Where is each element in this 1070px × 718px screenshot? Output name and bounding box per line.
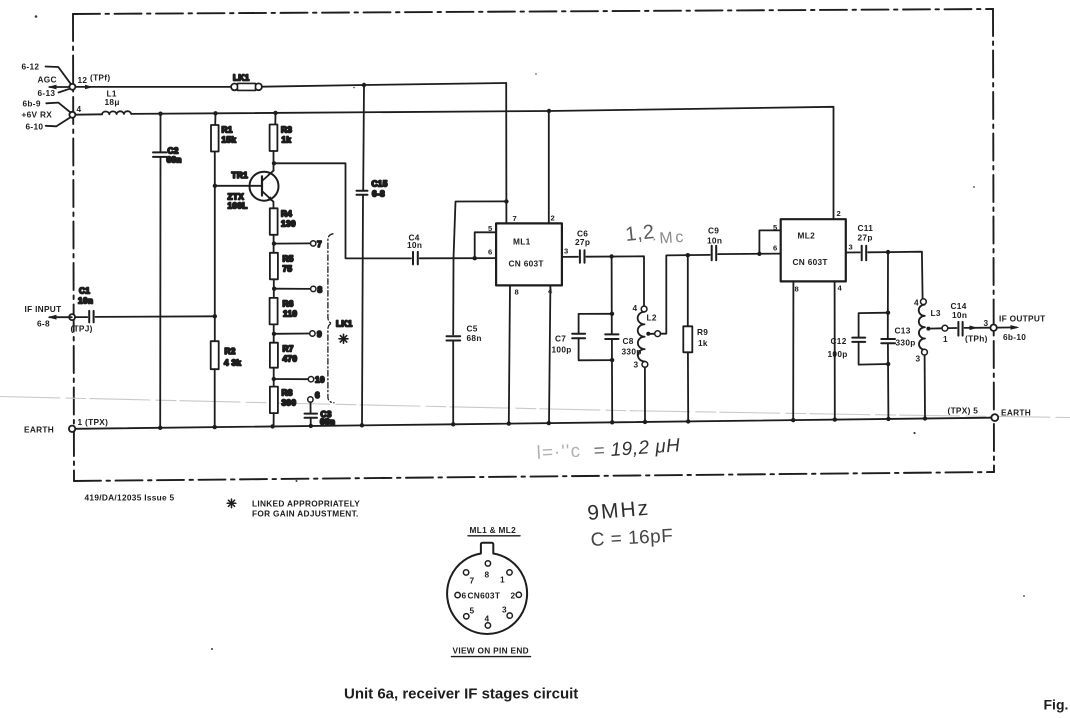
- terminal 4 (+6V): [69, 112, 75, 118]
- svg-text:EARTH: EARTH: [1001, 408, 1031, 418]
- svg-text:C1: C1: [79, 286, 90, 296]
- svg-text:2: 2: [837, 209, 841, 218]
- svg-text:5: 5: [773, 223, 778, 232]
- svg-text:VIEW ON PIN END: VIEW ON PIN END: [453, 646, 529, 656]
- svg-text:EARTH: EARTH: [24, 425, 54, 435]
- svg-text:C11: C11: [858, 223, 874, 233]
- svg-text:10n: 10n: [78, 296, 93, 306]
- svg-text:100p: 100p: [552, 345, 572, 355]
- svg-text:CN 603T: CN 603T: [793, 257, 828, 267]
- svg-text:419/DA/12035 Issue 5: 419/DA/12035 Issue 5: [85, 493, 175, 503]
- resistor R7: [270, 343, 278, 368]
- svg-text:12: 12: [78, 75, 88, 85]
- svg-text:(TPf): (TPf): [90, 73, 110, 83]
- pin 6: [455, 592, 460, 597]
- svg-text:C5: C5: [467, 324, 478, 334]
- resistor R5: [270, 253, 278, 279]
- svg-text:Unit 6a, receiver IF stages: Unit 6a, receiver IF stages circuit: [344, 686, 578, 703]
- resistor R6: [270, 298, 278, 325]
- svg-text:IF OUTPUT: IF OUTPUT: [999, 314, 1046, 324]
- capacitor C7 parallel loop: [610, 312, 614, 316]
- svg-text:ML1: ML1: [513, 237, 531, 247]
- wire: +6V rail to ML2 pin2: [131, 107, 833, 219]
- svg-text:+6V RX: +6V RX: [22, 110, 53, 120]
- terminal 5 (TPX) earth right: [991, 414, 998, 421]
- svg-text:10n: 10n: [952, 310, 967, 320]
- wire: ML2 pin 8 to earth: [792, 281, 794, 420]
- svg-text:4: 4: [77, 104, 82, 114]
- svg-text:R4: R4: [281, 209, 292, 219]
- svg-text:R7: R7: [283, 344, 294, 354]
- wire: C14 to IF output terminal: [965, 327, 991, 329]
- terminal 7: [311, 241, 316, 246]
- terminal 3 IF output (TPh): [990, 325, 996, 331]
- svg-text:LK1: LK1: [233, 73, 250, 83]
- fold-line scan artifact: [0, 397, 1070, 418]
- transistor TR1: [250, 172, 279, 201]
- terminal IF input (TPJ): [69, 314, 75, 320]
- svg-text:(TPJ): (TPJ): [71, 324, 93, 334]
- svg-text:3: 3: [849, 243, 853, 252]
- junction R4/R5 tap: [272, 241, 276, 245]
- leader 6-10: [46, 117, 71, 126]
- inductor L3: [921, 299, 927, 305]
- wire: ML1 pin 2 drop: [548, 111, 550, 223]
- handwritten note 9MHz C=16pF: [586, 497, 673, 551]
- op-amp module ML1: [496, 223, 562, 285]
- junction AGC/C15: [362, 83, 366, 87]
- svg-text:l=·''c: l=·''c: [536, 441, 581, 464]
- wire: L3 tap to C14: [948, 327, 957, 329]
- svg-text:AGC: AGC: [38, 75, 57, 85]
- svg-text:2: 2: [551, 214, 555, 223]
- wire: collector to C4 line: [274, 163, 411, 258]
- svg-text:6: 6: [488, 248, 492, 257]
- capacitor C6: [579, 250, 581, 262]
- svg-text:15k: 15k: [222, 135, 237, 145]
- svg-text:ML2: ML2: [798, 231, 816, 241]
- arrow on AGC wire: [85, 85, 93, 90]
- capacitor C4: [412, 252, 414, 265]
- svg-text:FOR GAIN ADJUSTMENT.: FOR GAIN ADJUSTMENT.: [252, 509, 359, 519]
- svg-text:8: 8: [318, 285, 323, 295]
- svg-text:4: 4: [485, 614, 490, 624]
- LK1 selection brace (dash-dot): [328, 234, 334, 403]
- capacitor C13 branch: [887, 252, 889, 338]
- wire: ML1 pin 8 to earth: [509, 285, 510, 423]
- svg-text:R5: R5: [283, 254, 294, 264]
- leader 6-12: [46, 67, 71, 84]
- svg-text:4: 4: [548, 287, 553, 296]
- junction collector node: [272, 161, 276, 165]
- svg-text:R2: R2: [225, 346, 236, 356]
- svg-text:4: 4: [914, 298, 919, 308]
- svg-text:9MHz: 9MHz: [586, 497, 651, 525]
- op-amp module ML2: [781, 219, 846, 281]
- wire: ML1 pin 5 loop: [475, 232, 496, 258]
- svg-text:68n: 68n: [467, 333, 482, 343]
- wire tap to terminal 9: [274, 333, 310, 335]
- junction R7/R8 tap: [272, 377, 276, 381]
- wire tap to terminal 8: [274, 288, 311, 290]
- junction C8 top: [609, 254, 613, 258]
- resistor R4: [270, 208, 278, 235]
- resistor R8: [270, 387, 278, 414]
- svg-text:6-8: 6-8: [372, 189, 385, 199]
- svg-text:6b-9: 6b-9: [23, 99, 41, 109]
- svg-text:4: 4: [838, 284, 843, 293]
- junction R9 top: [686, 253, 690, 257]
- junction R5/R6 tap: [272, 287, 276, 291]
- svg-text:6: 6: [773, 244, 777, 253]
- inductor L2: [641, 306, 647, 312]
- wire: L2 tap to C9 line: [661, 255, 711, 334]
- wire: ML1 pin 3 output: [562, 256, 578, 258]
- svg-text:68n: 68n: [167, 155, 182, 165]
- svg-text:(TPX) 5: (TPX) 5: [948, 406, 979, 416]
- svg-text:75: 75: [283, 264, 293, 274]
- terminal 9: [310, 331, 315, 336]
- wire: ML2 pin 3 output: [846, 251, 860, 253]
- svg-text:LINKED APPROPRIATELY: LINKED APPROPRIATELY: [252, 499, 360, 509]
- link LK1 (in AGC line): [231, 84, 238, 91]
- svg-text:L3: L3: [931, 308, 941, 318]
- svg-text:C9: C9: [708, 226, 719, 236]
- svg-text:330p: 330p: [896, 338, 916, 348]
- svg-text:Fig.: Fig.: [1044, 697, 1069, 713]
- svg-text:4 3k: 4 3k: [224, 358, 241, 368]
- svg-text:1k: 1k: [282, 135, 292, 145]
- capacitor C9: [711, 246, 713, 261]
- resistor R1: [214, 113, 216, 125]
- wire: AGC line LK1 to pin7 drop: [262, 83, 506, 87]
- earth rail: [75, 418, 992, 429]
- svg-text:C7: C7: [555, 334, 566, 344]
- svg-text:8: 8: [795, 285, 799, 294]
- IC can outline: [447, 543, 527, 634]
- svg-text:109L: 109L: [228, 201, 248, 211]
- junction pin5/pin6 tie ML1: [473, 256, 477, 260]
- svg-text:3: 3: [984, 318, 989, 328]
- junction ML1 pin2/+6V: [547, 109, 551, 113]
- svg-text:R9: R9: [697, 327, 708, 337]
- svg-text:ML1 & ML2: ML1 & ML2: [470, 525, 517, 535]
- svg-text:5: 5: [488, 224, 493, 233]
- svg-text:C = 16pF: C = 16pF: [590, 526, 674, 551]
- svg-text:19,2 μH: 19,2 μH: [610, 435, 681, 461]
- capacitor C15 branch: [362, 85, 365, 190]
- svg-text:TR1: TR1: [232, 170, 249, 180]
- svg-text:L2: L2: [647, 313, 657, 323]
- svg-text:6: 6: [462, 591, 467, 601]
- pin 3: [507, 613, 512, 618]
- terminal 6: [308, 397, 313, 402]
- wire tap to terminal 7: [274, 242, 310, 244]
- svg-text:9: 9: [317, 329, 322, 339]
- resistor R9: [687, 255, 689, 326]
- svg-text:R1: R1: [222, 125, 233, 135]
- leader 6-13: [59, 89, 70, 93]
- junction C2/+6V: [158, 112, 162, 116]
- wire: AGC line left arrow stub: [50, 86, 73, 88]
- capacitor C11: [861, 246, 863, 261]
- pin 2: [516, 592, 521, 597]
- svg-text:130: 130: [281, 219, 296, 229]
- junction pin5/pin6 tie ML2: [757, 252, 761, 256]
- capacitor C2: [160, 114, 162, 153]
- svg-text:6-12: 6-12: [22, 62, 40, 72]
- pin 4: [485, 623, 490, 628]
- terminal 8: [311, 286, 316, 291]
- svg-text:4: 4: [633, 303, 638, 313]
- svg-text:8: 8: [485, 570, 490, 580]
- svg-text:·Mc: ·Mc: [651, 229, 686, 248]
- leader 6b-9: [46, 103, 70, 113]
- resistor R2: [214, 316, 216, 341]
- asterisk (gain link): [339, 334, 348, 343]
- earth junction dots: [158, 426, 162, 430]
- svg-text:3: 3: [564, 247, 568, 256]
- wire: C9 to ML2 pin 6: [718, 253, 781, 256]
- junction R6/R7 tap: [272, 332, 276, 336]
- L2 tap: [646, 332, 650, 336]
- capacitor C5: [447, 335, 461, 337]
- junction R1/+6V: [213, 111, 217, 115]
- unit boundary dash-dot frame: [73, 9, 994, 481]
- handwritten note 1,2 Mc: [624, 221, 686, 248]
- svg-text:CN603T: CN603T: [468, 591, 501, 601]
- wire: C11 to L3 top: [868, 252, 923, 299]
- wire: +6V rail: [75, 113, 102, 115]
- svg-text:6b-10: 6b-10: [1003, 332, 1026, 342]
- svg-text:6-8: 6-8: [37, 319, 50, 329]
- svg-text:330p: 330p: [622, 347, 642, 357]
- svg-text:(TPh): (TPh): [965, 334, 988, 344]
- svg-text:1 (TPX): 1 (TPX): [78, 417, 109, 427]
- svg-text:C13: C13: [895, 326, 911, 336]
- svg-text:1: 1: [500, 575, 505, 585]
- svg-text:=: =: [593, 440, 605, 462]
- svg-text:5: 5: [470, 606, 475, 616]
- wire tap to terminal 10: [274, 378, 309, 380]
- handwritten note L = 19,2 uH: [536, 435, 681, 464]
- svg-text:6-13: 6-13: [38, 88, 56, 98]
- svg-text:27p: 27p: [858, 233, 873, 243]
- pin 8: [485, 561, 490, 566]
- svg-text:6: 6: [315, 390, 320, 400]
- junction C13 top: [886, 250, 890, 254]
- wire: ML1 pin 4 to earth: [549, 285, 550, 423]
- svg-text:2: 2: [511, 591, 516, 601]
- svg-text:390: 390: [282, 398, 297, 408]
- wire: AGC line from terminal 12 to LK1: [75, 86, 233, 88]
- svg-text:10n: 10n: [407, 240, 422, 250]
- svg-text:7: 7: [317, 239, 322, 249]
- svg-text:C15: C15: [372, 179, 388, 189]
- junction IF input node: [213, 314, 217, 318]
- svg-text:R8: R8: [282, 388, 293, 398]
- svg-text:CN 603T: CN 603T: [509, 259, 544, 269]
- svg-text:10n: 10n: [707, 236, 722, 246]
- wire: IF output arrow: [997, 326, 1017, 328]
- junction base node: [213, 184, 217, 188]
- svg-text:27p: 27p: [575, 237, 590, 247]
- terminal 1 (TPX) earth left: [69, 426, 75, 432]
- capacitor C1: [75, 316, 87, 318]
- svg-text:3: 3: [916, 354, 921, 364]
- svg-text:R3: R3: [281, 125, 292, 135]
- junction pin7/decouple: [504, 199, 508, 203]
- capacitor C14: [957, 322, 959, 336]
- svg-text:6-10: 6-10: [26, 122, 44, 132]
- junction R3/+6V: [273, 111, 277, 115]
- pin 5: [464, 614, 469, 619]
- wire: IF input arrow stub: [50, 316, 72, 318]
- resistor R3: [274, 113, 276, 125]
- wire: AGC drop to ML1 pin 7: [505, 83, 507, 223]
- wire: ML2 pin 4 to earth: [834, 281, 836, 419]
- svg-text:7: 7: [470, 576, 475, 586]
- wire: C6 to L2 top: [586, 256, 644, 306]
- terminal 12 (TPf): [69, 84, 75, 90]
- svg-text:3: 3: [502, 605, 507, 615]
- wire: C4 to ML1 pin 6: [420, 257, 496, 259]
- svg-text:8: 8: [515, 288, 519, 297]
- svg-text:10: 10: [315, 375, 325, 385]
- svg-text:470: 470: [283, 354, 298, 364]
- svg-text:100p: 100p: [828, 349, 848, 359]
- wire: pin7 decouple branch: [453, 201, 506, 334]
- svg-text:110: 110: [283, 309, 297, 319]
- svg-text:IF INPUT: IF INPUT: [25, 304, 62, 314]
- svg-text:18μ: 18μ: [105, 97, 120, 107]
- inductor L1: [102, 111, 131, 114]
- svg-text:3: 3: [634, 360, 639, 370]
- terminal 10: [308, 377, 313, 382]
- svg-text:C8: C8: [623, 336, 634, 346]
- svg-text:R6: R6: [283, 299, 294, 309]
- L3 tap: [926, 327, 930, 331]
- capacitor C12 parallel loop: [886, 311, 890, 315]
- pin 1: [507, 570, 512, 575]
- legend asterisk: [227, 499, 236, 508]
- pin 7: [463, 570, 468, 575]
- svg-text:1k: 1k: [698, 338, 708, 348]
- svg-text:1: 1: [943, 334, 948, 344]
- svg-text:C12: C12: [831, 336, 847, 346]
- capacitor C3: [310, 402, 312, 413]
- svg-text:7: 7: [513, 214, 517, 223]
- wire: ML2 pin 5 loop: [759, 230, 780, 253]
- capacitor C8 branch: [611, 257, 613, 334]
- svg-text:LK1: LK1: [336, 319, 353, 329]
